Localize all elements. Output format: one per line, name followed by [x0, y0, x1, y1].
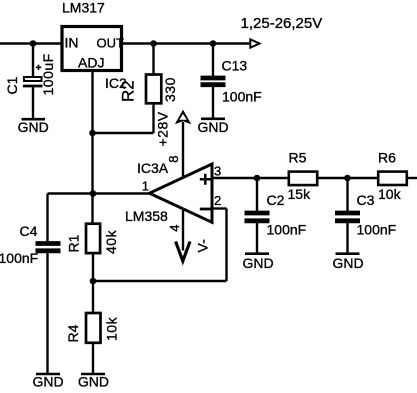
wire OUT rail: [122, 42, 251, 44]
svg-text:C1: C1: [4, 76, 20, 94]
svg-text:330: 330: [162, 77, 178, 102]
wire node A vertical: [91, 133, 93, 224]
svg-text:R6: R6: [378, 150, 396, 166]
node C3/R6: [344, 175, 351, 182]
node C13/out: [210, 40, 217, 47]
ground C2: [242, 254, 273, 271]
svg-text:GND: GND: [242, 255, 273, 271]
C1 positive plate (box): [24, 77, 42, 81]
svg-text:2: 2: [214, 193, 221, 208]
svg-text:GND: GND: [332, 255, 363, 271]
svg-text:+28V: +28V: [155, 111, 171, 146]
supply arrow +28V: [175, 110, 191, 125]
wire C1 bottom lead: [32, 86, 34, 119]
wire ADJ to R2: [93, 132, 154, 134]
svg-text:R1: R1: [66, 234, 82, 252]
svg-text:4: 4: [167, 225, 182, 232]
wire input rail left: [0, 42, 62, 44]
svg-text:10k: 10k: [104, 316, 120, 341]
svg-text:100uF: 100uF: [40, 53, 56, 95]
C1 negative plate: [23, 85, 43, 88]
node junction dots: [30, 40, 351, 284]
svg-text:GND: GND: [32, 374, 63, 390]
svg-text:C4: C4: [20, 223, 38, 239]
wire C13 top lead: [212, 44, 214, 78]
svg-text:OUT: OUT: [97, 36, 125, 51]
svg-text:GND: GND: [18, 119, 49, 135]
svg-text:C2: C2: [267, 192, 285, 208]
ground C4: [32, 374, 63, 390]
svg-text:100nF: 100nF: [357, 222, 397, 238]
wire C4 top lead: [46, 194, 48, 243]
svg-text:100nF: 100nF: [267, 222, 307, 238]
op-amp minus input mark: [200, 208, 211, 211]
wire pin8 supply: [182, 122, 184, 178]
node R2/out: [150, 40, 157, 47]
wire R4 top lead: [92, 281, 94, 313]
regulator IC2 LM317 box: [62, 27, 122, 71]
svg-text:1,25-26,25V: 1,25-26,25V: [241, 15, 323, 32]
wire feedback horizontal: [93, 280, 227, 282]
svg-text:R2: R2: [119, 80, 138, 102]
svg-text:8: 8: [166, 156, 181, 163]
wire R2 top lead: [152, 44, 154, 76]
svg-text:LM358: LM358: [125, 208, 168, 224]
svg-text:R5: R5: [289, 150, 307, 166]
node C2/R5: [254, 175, 261, 182]
resistor R5: [288, 150, 318, 202]
svg-text:1: 1: [142, 179, 149, 194]
svg-text:15k: 15k: [288, 186, 312, 202]
svg-text:C3: C3: [357, 192, 375, 208]
svg-text:GND: GND: [197, 119, 228, 135]
wire C2 top lead: [256, 178, 258, 212]
ground C3: [332, 254, 363, 271]
node C1/input: [30, 40, 37, 47]
wire R1 bottom lead: [92, 254, 94, 281]
capacitor C13: [201, 58, 262, 105]
wire R4 bottom lead: [92, 344, 94, 373]
wire C3 top lead: [346, 178, 348, 212]
capacitor C4: [0, 223, 61, 266]
svg-text:IC3A: IC3A: [137, 160, 169, 176]
wire R5 to R6: [319, 177, 379, 179]
svg-text:10k: 10k: [378, 186, 402, 202]
svg-text:40k: 40k: [103, 229, 119, 254]
svg-text:V-: V-: [195, 239, 211, 253]
wire pin2 stub: [212, 207, 227, 209]
wire pin3 to R5: [212, 177, 288, 179]
wire pin4 supply: [182, 208, 184, 251]
capacitor C1 (electrolytic): [4, 53, 56, 95]
svg-text:GND: GND: [78, 374, 109, 390]
wire C4 bottom lead: [46, 253, 48, 374]
wire feedback vertical: [225, 209, 227, 282]
wire C2 bottom lead: [256, 222, 258, 254]
svg-text:100nF: 100nF: [222, 89, 262, 105]
svg-text:3: 3: [214, 163, 221, 178]
ground R4: [78, 374, 109, 390]
wire R6 to edge: [408, 177, 417, 179]
svg-text:C13: C13: [222, 58, 248, 74]
resistor R1: [66, 224, 120, 254]
ground C13: [197, 119, 228, 135]
svg-text:ADJ: ADJ: [78, 55, 104, 71]
wire op-amp output rail: [48, 192, 152, 194]
resistor R6: [378, 150, 407, 202]
node R1/R4 feedback: [90, 278, 97, 285]
svg-text:LM317: LM317: [62, 0, 105, 16]
wire ADJ drop: [91, 70, 93, 133]
op-amp plus input mark: [200, 174, 211, 185]
capacitor C2: [245, 192, 307, 238]
node ADJ: [89, 130, 96, 137]
supply arrow V-: [176, 242, 190, 262]
svg-text:100nF: 100nF: [0, 250, 38, 266]
node output/R1: [90, 190, 97, 197]
output arrow: [250, 39, 259, 47]
resistor R2: [119, 75, 179, 104]
op-amp IC3A (LM358) triangle: [150, 164, 213, 222]
wire R2 bottom lead: [152, 103, 154, 133]
svg-text:IN: IN: [65, 35, 79, 51]
resistor R4: [65, 313, 120, 343]
wire C3 bottom lead: [346, 222, 348, 254]
svg-text:R4: R4: [65, 324, 81, 342]
C1 polarity plus: [36, 65, 41, 70]
wire C13 bottom lead: [212, 86, 214, 120]
wire C1 top lead: [32, 44, 34, 78]
ground C1: [18, 119, 49, 135]
capacitor C3: [335, 192, 396, 238]
